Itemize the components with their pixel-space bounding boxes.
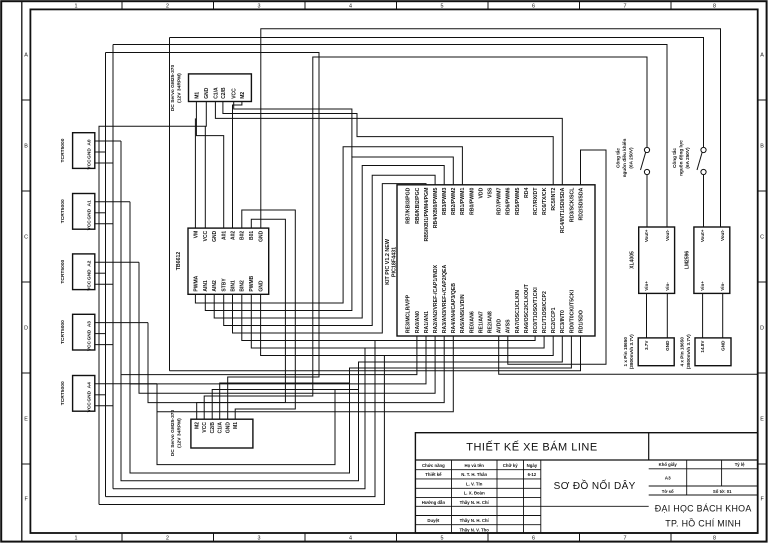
svg-text:RA5/AN5/LVDIN: RA5/AN5/LVDIN (460, 294, 466, 333)
svg-text:Vin-: Vin- (720, 282, 725, 291)
svg-text:Chức năng: Chức năng (422, 463, 445, 468)
wire U2 B01 to M2.M2 (197, 219, 286, 419)
BT1 label 1 x Pin 18650 (3800mAh 3.7V) (623, 334, 634, 369)
svg-text:RD3/SCK/SCL: RD3/SCK/SCL (569, 187, 575, 222)
wire bottom return 5 (inner) (130, 383, 350, 473)
svg-text:RD1/SDO: RD1/SDO (578, 310, 584, 333)
motor driver U2 TB6612 body (188, 228, 269, 294)
svg-text:RD5/PWM5: RD5/PWM5 (515, 187, 521, 214)
U2 top pin labels (193, 230, 264, 242)
svg-text:A3: A3 (665, 476, 671, 481)
wire S3 signal stub (95, 322, 148, 324)
svg-text:Thầy N. H. Chí: Thầy N. H. Chí (460, 518, 490, 523)
title block main dividers (415, 433, 757, 460)
wire rail GND top (TB GND to U4 Vout-) (261, 29, 721, 228)
svg-text:RB1/PWM1: RB1/PWM1 (460, 187, 466, 214)
svg-text:(3800mAh 3.7V): (3800mAh 3.7V) (686, 334, 691, 369)
svg-text:Số tờ: 01: Số tờ: 01 (713, 489, 732, 494)
svg-text:5: 5 (441, 536, 444, 542)
sensor S1 TCRT5000 body (73, 194, 95, 230)
wire U3 Vin+ to BT1 3.7V (646, 293, 648, 338)
svg-text:1 x Pin 18650: 1 x Pin 18650 (623, 337, 628, 367)
wire S0 GND stub (95, 151, 106, 153)
svg-text:B: B (760, 144, 764, 150)
svg-text:RA7/OSC1/CLKIN: RA7/OSC1/CLKIN (515, 290, 521, 333)
SW1 label Cong tac nguon dieu khien (6A 250V) (615, 138, 634, 177)
svg-text:GND: GND (87, 269, 93, 280)
svg-text:(12V 34RPM): (12V 34RPM) (177, 73, 183, 103)
svg-text:RA1/AN1: RA1/AN1 (424, 311, 430, 333)
wire loop U1 PWM to U2 AIN2 (214, 166, 444, 319)
svg-text:1: 1 (75, 536, 78, 542)
svg-text:DC Servo GM25-370: DC Servo GM25-370 (170, 409, 176, 456)
wire U2 BIN2 to U1 RC0 (242, 294, 535, 340)
wire rail 5V top (SW1 to M2.VCC) (204, 57, 647, 419)
signature table grid (415, 460, 540, 533)
svg-text:C: C (760, 235, 764, 241)
svg-text:Thiết kế: Thiết kế (425, 472, 442, 477)
svg-text:RC4/INT1/SDI/SDA: RC4/INT1/SDI/SDA (560, 187, 566, 233)
svg-text:6: 6 (532, 536, 535, 542)
svg-text:RC1/T1OSI/CCP2: RC1/T1OSI/CCP2 (542, 291, 548, 333)
svg-text:E: E (24, 417, 28, 423)
svg-text:L. V. Tín: L. V. Tín (466, 482, 483, 487)
svg-text:RB6/KBI2/PGC: RB6/KBI2/PGC (415, 187, 421, 224)
svg-text:A02: A02 (230, 231, 236, 240)
wire SW2 to U4 Vout+ (703, 175, 705, 227)
wire S4 VCC stub (95, 405, 113, 407)
svg-text:Duyệt: Duyệt (427, 518, 440, 523)
svg-text:RE1/AN7: RE1/AN7 (478, 311, 484, 333)
svg-text:BIN2: BIN2 (240, 280, 246, 292)
svg-text:RD6/PWM6: RD6/PWM6 (506, 187, 512, 214)
svg-text:TCRT5000: TCRT5000 (60, 381, 66, 405)
paper info texts (659, 462, 745, 494)
svg-text:C: C (24, 235, 28, 241)
svg-text:Công tắc: Công tắc (615, 148, 621, 168)
drawing name cell SO DO NOI DAY (541, 505, 649, 507)
svg-text:GND: GND (259, 230, 265, 242)
MCU board U1 KIT PIC V1.2 PIC18F4431 body (397, 185, 595, 336)
regulator U4 LM2596 body (694, 227, 730, 293)
zone letters right (760, 53, 764, 503)
wire bottom return 3 (113, 348, 365, 489)
svg-text:Vin+: Vin+ (700, 281, 705, 291)
wire S1 signal stub (95, 201, 130, 203)
svg-text:GND: GND (226, 422, 232, 434)
svg-text:M2: M2 (240, 92, 246, 99)
wire S1 GND stub (95, 212, 106, 214)
wire S0 signal stub (95, 140, 121, 142)
svg-text:3.7V: 3.7V (644, 340, 649, 350)
svg-text:M1: M1 (194, 92, 200, 99)
sensor S3 TCRT5000 body (73, 314, 95, 350)
svg-text:8: 8 (713, 536, 716, 542)
svg-text:L. X. Đoàn: L. X. Đoàn (464, 491, 485, 496)
U2 bottom pin labels (193, 275, 264, 291)
svg-text:AIN2: AIN2 (212, 280, 218, 292)
switch SW1 control power (641, 147, 650, 174)
svg-text:DC Servo GM25-370: DC Servo GM25-370 (170, 64, 176, 111)
M2 pin labels (195, 422, 240, 434)
S3 pin labels A3 GND VCC (87, 321, 93, 351)
switch SW2 drive power (697, 147, 706, 174)
zone row ticks right (758, 100, 767, 464)
svg-text:RC3/INT0: RC3/INT0 (560, 310, 566, 333)
wire rail 12V top (SW2 to left drop) (170, 38, 704, 148)
svg-text:TP. HỒ CHÍ MINH: TP. HỒ CHÍ MINH (665, 518, 741, 529)
svg-text:TCRT5000: TCRT5000 (60, 320, 66, 344)
svg-text:RB5/KBI1/PWM4/PGM: RB5/KBI1/PWM4/PGM (424, 188, 430, 242)
wire loop U1 PWM to U2 PWMA (outer) (195, 147, 462, 303)
svg-text:4 x Pin 18650: 4 x Pin 18650 (680, 337, 685, 367)
svg-text:2: 2 (166, 536, 169, 542)
svg-text:N. T. H. Thân: N. T. H. Thân (461, 472, 487, 477)
svg-text:VCC: VCC (87, 402, 93, 413)
svg-text:A1: A1 (87, 200, 93, 206)
wire net A4 sensor S4 to U1 RA4 (157, 336, 453, 412)
svg-text:nguồn động lực: nguồn động lực (679, 140, 684, 176)
svg-text:AIN1: AIN1 (203, 280, 209, 292)
svg-text:XL4005: XL4005 (630, 251, 636, 269)
svg-text:GND: GND (87, 390, 93, 401)
wire U2 VM riser (194, 118, 196, 228)
svg-text:14.8V: 14.8V (700, 340, 705, 353)
sensor S4 TCRT5000 body (73, 376, 95, 412)
wire net A3 sensor S3 to U1 RA3 (148, 323, 444, 403)
svg-text:B: B (24, 144, 28, 150)
wire U2 PWMB to U1 RC1 (251, 294, 544, 348)
wire inner loop around M2 (157, 390, 335, 465)
svg-text:Vout+: Vout+ (644, 229, 649, 242)
wire U2 B02 to M2.M1 (235, 210, 295, 419)
svg-text:SƠ ĐỒ NỐI DÂY: SƠ ĐỒ NỐI DÂY (554, 478, 636, 492)
svg-text:VM: VM (193, 231, 199, 239)
wire U2 VCC riser (204, 126, 206, 228)
svg-text:Vout-: Vout- (665, 229, 670, 241)
BT2 pin labels 14.8V GND (700, 340, 725, 353)
svg-text:6: 6 (532, 3, 535, 9)
svg-text:C2/B: C2/B (210, 422, 216, 434)
svg-text:3: 3 (258, 3, 261, 9)
wire U2 GND to U1 RC2 (261, 294, 554, 355)
svg-text:PWMB: PWMB (249, 275, 255, 291)
wire bottom return 4 (121, 375, 359, 481)
BT2 label 4 x Pin 18650 (3800mAh 3.7V) (680, 334, 691, 369)
svg-text:RB3/PWM3: RB3/PWM3 (442, 187, 448, 214)
U1 top pin labels (406, 187, 585, 242)
svg-text:GND: GND (720, 340, 725, 351)
wire M1.C2/B encoder to U1 RC5 (223, 102, 553, 185)
wire U4 Vin- to BT2 GND (722, 293, 724, 338)
svg-text:GND: GND (87, 208, 93, 219)
title block outline (415, 433, 757, 533)
svg-text:GND: GND (259, 280, 265, 292)
svg-text:PWMA: PWMA (193, 275, 199, 291)
M1 pin labels (194, 87, 246, 99)
wire bottom return 2 (106, 341, 376, 497)
svg-text:2: 2 (166, 3, 169, 9)
wire rail VCC top (bus2 to U3 Vout-) (113, 45, 667, 228)
svg-text:RB7/KBI3/PGD: RB7/KBI3/PGD (406, 187, 412, 224)
S2 pin labels A2 GND VCC (87, 260, 93, 290)
svg-text:6-12: 6-12 (528, 472, 537, 477)
wire S2 VCC stub (95, 283, 113, 285)
sensor S2 TCRT5000 body (73, 254, 95, 290)
wire rail GND top-left to M2.GND (106, 53, 320, 420)
svg-text:TB6612: TB6612 (176, 252, 182, 271)
svg-text:RE2/AN8: RE2/AN8 (488, 311, 494, 333)
svg-text:TCRT5000: TCRT5000 (60, 259, 66, 283)
svg-text:Vout-: Vout- (720, 229, 725, 241)
svg-text:GND: GND (87, 329, 93, 340)
svg-text:RA4/AN4/CAP3/QEB: RA4/AN4/CAP3/QEB (451, 283, 457, 333)
svg-text:RA2/AN2/VREF-/CAP1/INDX: RA2/AN2/VREF-/CAP1/INDX (433, 264, 439, 333)
svg-text:GND: GND (87, 148, 93, 159)
zone numbers bottom (75, 536, 717, 542)
S4 pin labels A4 GND VCC (87, 382, 93, 412)
wire U4 Vin+ to BT2 14.8V (702, 293, 704, 338)
svg-text:RC2/CCP1: RC2/CCP1 (551, 307, 557, 333)
svg-text:(6A 250V): (6A 250V) (629, 147, 634, 169)
BT1 pin labels 3.7V GND (644, 340, 670, 351)
svg-text:E: E (760, 417, 764, 423)
U1 label KIT PIC V1.2 NEW / PIC18F4431 (385, 238, 398, 285)
svg-text:Vin+: Vin+ (644, 281, 649, 291)
svg-text:Họ và tên: Họ và tên (465, 463, 485, 468)
svg-text:Công tắc: Công tắc (671, 148, 677, 168)
motor M2 DC Servo GM25-370 body (bottom) (191, 419, 253, 448)
wire M2.C1/A encoder to U1 RD0 (220, 336, 572, 419)
signature table content (422, 463, 538, 532)
svg-text:RA6/OSC2/CLKOUT: RA6/OSC2/CLKOUT (524, 283, 530, 333)
svg-text:A0: A0 (87, 139, 93, 145)
wire loop U1 PWM to U2 AIN1 (205, 157, 453, 311)
zone column ticks bottom (122, 533, 671, 542)
svg-text:(3800mAh 3.7V): (3800mAh 3.7V) (629, 334, 634, 369)
svg-text:A3: A3 (87, 321, 93, 327)
zone row ticks left (22, 100, 31, 464)
svg-text:VCC: VCC (87, 280, 93, 291)
svg-text:Vout+: Vout+ (700, 229, 705, 242)
battery BT2 4x Pin 18650 body (695, 338, 731, 366)
wire M1.C1/A encoder to U1 RC4 (215, 102, 562, 185)
svg-text:Khổ giấy: Khổ giấy (659, 462, 678, 467)
svg-text:VCC: VCC (202, 422, 208, 433)
svg-text:RD0/T0CKI/T5CKI: RD0/T0CKI/T5CKI (569, 289, 575, 333)
svg-text:TCRT5000: TCRT5000 (60, 138, 66, 162)
wire SW1 to U3 Vout+ (646, 175, 648, 227)
svg-text:Thầy N. V. Thọ: Thầy N. V. Thọ (459, 527, 489, 532)
battery BT1 1x Pin 18650 body (638, 338, 674, 366)
svg-text:A2: A2 (87, 260, 93, 266)
svg-text:A01: A01 (222, 231, 228, 240)
svg-text:THIẾT KẾ XE BÁM LINE: THIẾT KẾ XE BÁM LINE (466, 441, 597, 454)
svg-text:RC6/TX/CK: RC6/TX/CK (542, 187, 548, 215)
svg-text:(6A 250V): (6A 250V) (685, 147, 690, 169)
wire net A1 sensor S1 to U1 RA1 (130, 202, 426, 384)
svg-text:Tờ số: Tờ số (662, 489, 674, 494)
wire S0 VCC stub (95, 162, 113, 164)
wire M1.M1 to U2 A01 (196, 102, 223, 229)
svg-text:RC7/RX/DT: RC7/RX/DT (533, 187, 539, 215)
svg-text:STBY: STBY (222, 278, 228, 292)
wire M1.M2 to U2 A02 (233, 102, 242, 229)
svg-text:C1/A: C1/A (218, 422, 224, 434)
svg-text:8: 8 (713, 3, 716, 9)
svg-text:RE3/MCLR/VPP: RE3/MCLR/VPP (406, 294, 412, 333)
wire bottom GND return (outer) (99, 356, 384, 505)
binding margin line (21, 1, 23, 541)
svg-text:RC5/INT2: RC5/INT2 (551, 187, 557, 210)
wire U1 RD1 left line (170, 336, 581, 371)
svg-text:LM2596: LM2596 (685, 251, 691, 270)
svg-text:Vin-: Vin- (665, 282, 670, 291)
wire U1 AVDD to frame right (499, 336, 758, 374)
svg-text:A4: A4 (87, 382, 93, 388)
svg-text:VCC: VCC (87, 159, 93, 170)
motor M1 DC Servo GM25-370 body (top) (189, 74, 252, 102)
svg-text:PIC18F4431: PIC18F4431 (392, 247, 398, 277)
wire S4 GND stub (95, 394, 106, 396)
U4 pin labels Vout/Vin (700, 229, 725, 291)
wire M2.C2/B encoder to U1 RC3 (212, 336, 562, 419)
wire S2 GND stub (95, 272, 106, 274)
svg-text:M2: M2 (195, 422, 201, 429)
svg-text:C1/A: C1/A (213, 87, 219, 99)
wire net A0 sensor S0 to U1 RA0 (121, 141, 417, 375)
zone letters left (24, 53, 28, 503)
S0 pin labels A0 GND VCC (87, 139, 93, 169)
svg-text:Tỷ lệ: Tỷ lệ (735, 462, 745, 467)
M1 label DC Servo GM25-370 (12V 34RPM) (170, 64, 183, 111)
svg-text:3: 3 (258, 536, 261, 542)
wire U3 Vin- to BT1 GND (666, 293, 668, 338)
svg-text:AVDD: AVDD (497, 319, 503, 334)
zone column ticks top (122, 1, 671, 9)
svg-text:A: A (24, 53, 28, 59)
wire S3 GND stub (95, 333, 106, 335)
svg-text:KIT PIC V1.2 NEW: KIT PIC V1.2 NEW (385, 238, 391, 285)
wire U1 RD2 right loop to U1 AVSS (508, 150, 606, 364)
M2 label DC Servo GM25-370 (12V 34RPM) (170, 409, 183, 456)
wire loop U1 PWM to U2 BIN1 (inner) (233, 184, 427, 333)
SW2 label Cong tac nguon dong luc (6A 250V) (671, 140, 690, 176)
wire bus1 GND left (105, 53, 107, 497)
svg-text:7: 7 (624, 536, 627, 542)
U3 pin labels Vout/Vin (644, 229, 670, 291)
svg-text:D: D (760, 326, 764, 332)
svg-text:D: D (24, 326, 28, 332)
svg-text:TCRT5000: TCRT5000 (60, 199, 66, 223)
wire S2 signal stub (95, 261, 139, 263)
svg-text:A: A (760, 53, 764, 59)
svg-text:AVSS: AVSS (506, 319, 512, 333)
wire S3 VCC stub (95, 344, 113, 346)
svg-text:RA0/AN0: RA0/AN0 (415, 311, 421, 333)
wire M1.VCC line (234, 102, 352, 158)
wire loop U1 PWM to U2 STBY (224, 175, 435, 325)
S1 pin labels A1 GND VCC (87, 200, 93, 230)
svg-text:4: 4 (349, 536, 352, 542)
paper info grid (649, 460, 758, 495)
svg-text:GND: GND (204, 87, 210, 99)
U1 bottom pin labels (406, 264, 585, 333)
svg-text:5: 5 (441, 3, 444, 9)
svg-text:4: 4 (349, 3, 352, 9)
wire S4 signal stub (95, 383, 157, 385)
svg-text:GND: GND (665, 340, 670, 351)
svg-text:7: 7 (624, 3, 627, 9)
svg-text:BIN1: BIN1 (230, 280, 236, 292)
svg-text:VCC: VCC (87, 220, 93, 231)
wire 12V drop (T2 vertical) (169, 38, 171, 371)
svg-text:M1: M1 (233, 422, 239, 429)
svg-text:RD2/SDI/SDA: RD2/SDI/SDA (578, 187, 584, 220)
svg-text:Thầy N. H. Chí: Thầy N. H. Chí (460, 500, 490, 505)
svg-text:RC0/T1OSO/T1CKI: RC0/T1OSO/T1CKI (533, 287, 539, 333)
wire S1 VCC stub (95, 223, 113, 225)
svg-text:VDD: VDD (478, 187, 484, 198)
svg-text:VSS: VSS (488, 187, 494, 198)
regulator U3 XL4005 body (639, 227, 675, 293)
svg-text:Ngày: Ngày (527, 463, 538, 468)
svg-text:B01: B01 (249, 231, 255, 240)
svg-text:RB0/PWM0: RB0/PWM0 (469, 187, 475, 214)
svg-text:RB2/PWM2: RB2/PWM2 (451, 187, 457, 214)
svg-text:nguồn điều khiển: nguồn điều khiển (621, 138, 627, 177)
svg-text:B02: B02 (240, 231, 246, 240)
svg-text:RB4/KBI0/PWM5: RB4/KBI0/PWM5 (433, 187, 439, 228)
wire bus2 VCC left (112, 45, 114, 489)
svg-text:C2/B: C2/B (221, 87, 227, 99)
svg-text:1: 1 (75, 3, 78, 9)
sensor S0 TCRT5000 body (73, 133, 95, 169)
svg-text:VCC: VCC (203, 230, 209, 241)
svg-text:GND: GND (212, 230, 218, 242)
zone numbers top (75, 3, 717, 9)
svg-text:VCC: VCC (87, 341, 93, 352)
wire M1.GND left to GND loop (99, 102, 206, 505)
wire net A2 sensor S2 to U1 RA2 (139, 262, 435, 393)
svg-text:RD7/PWM7: RD7/PWM7 (497, 187, 503, 214)
svg-text:(12V 34RPM): (12V 34RPM) (177, 418, 183, 448)
svg-text:Hướng dẫn: Hướng dẫn (422, 500, 446, 505)
svg-text:Chữ ký: Chữ ký (503, 463, 518, 468)
svg-text:RE0/AN6: RE0/AN6 (469, 311, 475, 333)
svg-text:RA3/AN3/VREF+/CAP2/QEA: RA3/AN3/VREF+/CAP2/QEA (442, 264, 448, 333)
svg-text:VCC: VCC (232, 88, 238, 99)
svg-text:ĐẠI HỌC BÁCH KHOA: ĐẠI HỌC BÁCH KHOA (655, 504, 752, 514)
university name (655, 504, 752, 529)
svg-text:RD4: RD4 (524, 187, 530, 197)
